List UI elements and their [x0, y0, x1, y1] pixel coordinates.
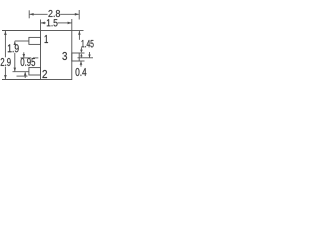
- arrowhead small down at centerline: [88, 55, 90, 58]
- pin3 centerline left stub: [21, 57, 32, 59]
- arrowhead 1.45 down: [80, 50, 83, 53]
- extension line body top right: [72, 30, 84, 32]
- label 2.9: [1, 58, 11, 66]
- pin3 centerline right: [78, 57, 94, 59]
- package body outline: [41, 31, 72, 80]
- label 1: [45, 35, 48, 43]
- extension line lead tips left (2.8 dim): [28, 10, 30, 18]
- arrowhead 1.45 up: [78, 31, 81, 35]
- arrowhead 1.9 up: [14, 41, 17, 45]
- background: [0, 0, 100, 100]
- extension line body bottom left: [2, 79, 41, 81]
- extension line body top left: [2, 30, 41, 32]
- arrowhead 2.9 down: [4, 75, 7, 79]
- label 1.9: [8, 44, 19, 52]
- extension line lead3 tip right (2.8 dim): [78, 10, 80, 20]
- label 2: [43, 70, 48, 78]
- arrowhead 2.8 left: [30, 13, 34, 16]
- label 0.95: [21, 58, 35, 66]
- lead2 bottom edge extension: [17, 75, 28, 77]
- dimension line 1.45 upper segment: [78, 31, 80, 40]
- arrowhead small up at lead3 top ext: [80, 53, 82, 56]
- lead 1 (top left): [29, 37, 41, 44]
- arrowhead 0.95 down (top, outside): [23, 54, 26, 58]
- pin1 centerline: [15, 40, 29, 42]
- small down arrow tail to centerline: [89, 52, 91, 57]
- label 2.8: [48, 10, 60, 17]
- 0.4 bottom arrow tail: [80, 61, 82, 66]
- arrowhead 1.9 down: [14, 68, 17, 72]
- dimension line 2.9 lower segment: [4, 67, 6, 79]
- lead 3 (right): [72, 53, 79, 61]
- dimension line 1.45 lower segment: [80, 48, 82, 50]
- pin2 centerline: [13, 71, 29, 73]
- label 0.4: [76, 68, 87, 76]
- arrowhead 0.4 up: [80, 61, 83, 65]
- dimension line 1.5 right segment: [58, 22, 72, 24]
- label 1.45: [82, 40, 94, 47]
- lead 2 (bottom left): [29, 68, 41, 75]
- arrowhead 2.8 right: [75, 13, 79, 16]
- extension line body right edge up (1.5 dim): [71, 19, 73, 31]
- arrowhead 0.95 up (bottom, outside): [24, 72, 27, 76]
- lead3 top edge extension: [79, 52, 84, 54]
- extension line body left edge up (1.5 dim): [40, 20, 42, 31]
- label 3: [62, 52, 67, 60]
- dimension line 2.8 left segment: [30, 13, 48, 15]
- 0.95 top arrow tail: [23, 52, 25, 57]
- dimension line 2.8 right segment: [60, 13, 79, 15]
- arrowhead 2.9 up: [4, 31, 7, 35]
- arrowhead 1.5 right: [68, 22, 72, 25]
- small up arrow tail at lead3 top: [80, 56, 82, 57]
- dimension line 1.5 left segment: [41, 22, 46, 24]
- dimension line 2.9 upper segment: [4, 31, 6, 57]
- dimension line 1.9 lower segment: [14, 53, 16, 72]
- label 1.5: [47, 19, 58, 26]
- dimension line 1.9 upper segment: [14, 41, 16, 43]
- arrowhead 1.5 left: [41, 22, 45, 25]
- lead3 bottom edge extension: [79, 60, 84, 62]
- 0.95 bottom arrow tail: [24, 72, 26, 78]
